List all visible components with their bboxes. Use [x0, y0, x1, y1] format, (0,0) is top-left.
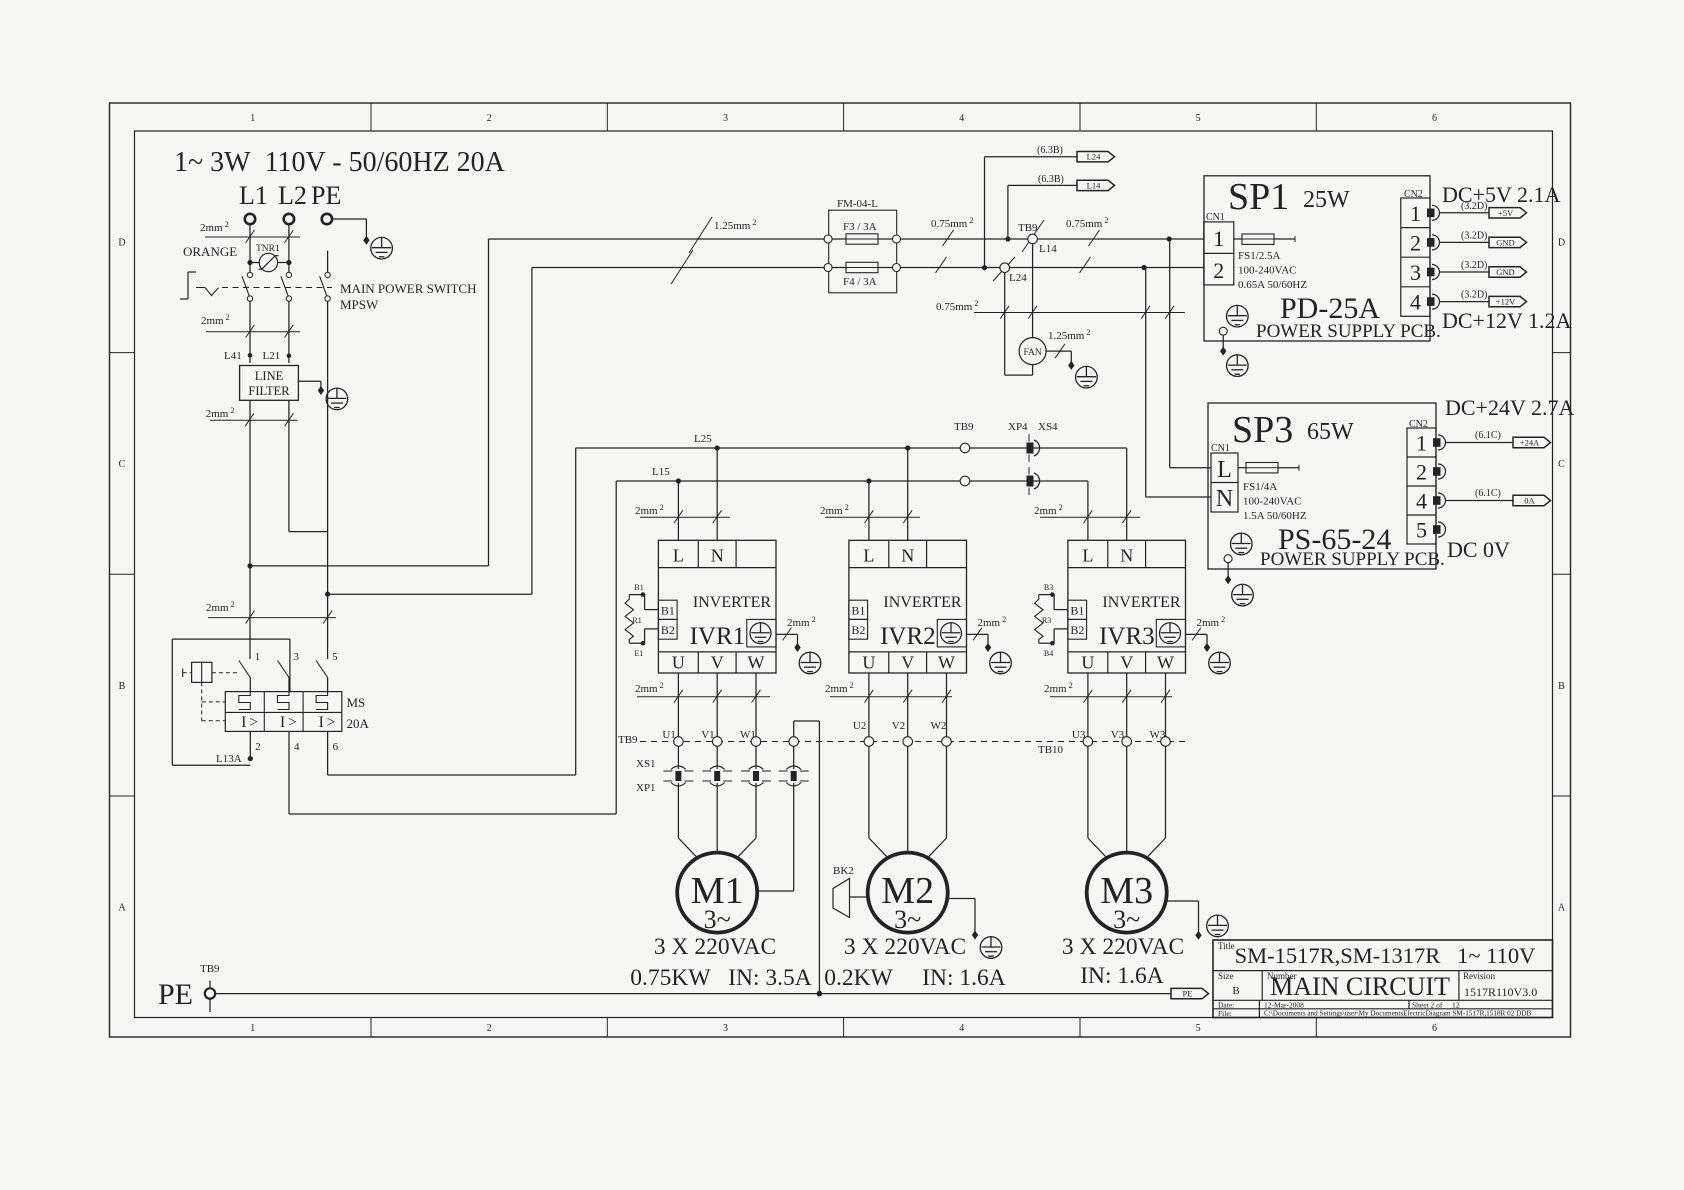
svg-text:3: 3 [723, 113, 728, 124]
ground (SP3 chassis) [1232, 584, 1254, 606]
terminal L2 [284, 214, 294, 224]
svg-text:CN1: CN1 [1211, 443, 1230, 454]
junction [1141, 265, 1146, 270]
wires to motor M2 [868, 746, 870, 838]
svg-text:+5V: +5V [1498, 208, 1514, 218]
svg-text:FILTER: FILTER [248, 384, 290, 398]
svg-text:INVERTER: INVERTER [883, 594, 961, 611]
pin CN2-4 (SP1) [1427, 294, 1440, 309]
svg-text:5: 5 [1416, 518, 1427, 543]
svg-text:A: A [1558, 903, 1566, 914]
ground (SP3 internal) [1231, 533, 1253, 555]
svg-text:INVERTER: INVERTER [693, 594, 771, 611]
svg-text:ORANGE: ORANGE [183, 244, 237, 259]
svg-text:L21: L21 [263, 350, 281, 362]
wire L2 drop [288, 224, 290, 272]
svg-text:PE: PE [158, 978, 193, 1011]
terminal B2 (IVR3) [1068, 619, 1087, 639]
svg-text:E1: E1 [634, 649, 643, 658]
varistor TNR1 [247, 260, 252, 265]
svg-text:Size: Size [1218, 971, 1234, 981]
svg-text:2: 2 [487, 1023, 492, 1034]
svg-text:2: 2 [1416, 460, 1427, 485]
fuse module FM-04-L [829, 210, 897, 293]
svg-text:W: W [938, 653, 955, 673]
svg-text:L: L [863, 546, 874, 566]
svg-text:>: > [288, 714, 297, 731]
terminal B2 (IVR1) [658, 619, 677, 639]
ground (IVR1 chassis) [799, 652, 821, 674]
svg-text:N: N [711, 546, 724, 566]
ground (IVR3 chassis) [1209, 652, 1231, 674]
svg-text:POWER SUPPLY PCB.: POWER SUPPLY PCB. [1260, 549, 1445, 570]
svg-text:(6.1C): (6.1C) [1475, 488, 1501, 499]
svg-text:(3.2D): (3.2D) [1461, 260, 1487, 271]
svg-text:1517R110V3.0: 1517R110V3.0 [1464, 985, 1537, 999]
connector CN2 (SP3) [1407, 428, 1436, 544]
svg-text:Title: Title [1218, 941, 1235, 951]
svg-text:3 X 220VAC: 3 X 220VAC [1062, 934, 1184, 960]
svg-text:L14: L14 [1039, 243, 1057, 255]
wire IVR3 earth [1186, 633, 1208, 635]
svg-text:0A: 0A [1524, 496, 1535, 506]
ground (PE input) [371, 237, 393, 259]
svg-text:L1: L1 [239, 181, 268, 210]
svg-text:F4 / 3A: F4 / 3A [843, 276, 877, 288]
svg-text:LINE: LINE [255, 369, 284, 383]
fuse FS1/2.5A [1234, 238, 1242, 240]
svg-text:L41: L41 [224, 350, 242, 362]
svg-text:B: B [1558, 681, 1565, 692]
title block [1213, 940, 1553, 1018]
svg-text:INVERTER: INVERTER [1102, 594, 1180, 611]
svg-text:1: 1 [255, 651, 260, 663]
wire IVR2 N feed [907, 448, 909, 540]
svg-text:2: 2 [487, 113, 492, 124]
wire SP3 N input [1145, 268, 1147, 498]
wire IVR1 earth [776, 633, 798, 635]
svg-text:B4: B4 [1044, 649, 1053, 658]
terminal B1 (IVR3) [1068, 600, 1087, 619]
svg-text:1: 1 [250, 113, 255, 124]
pin CN2-3 (SP1) [1427, 265, 1439, 280]
wire FAN earth [1046, 350, 1071, 352]
braking resistor R3 [1050, 592, 1055, 597]
svg-text:XP4: XP4 [1008, 421, 1028, 433]
svg-text:12-Mar-2008: 12-Mar-2008 [1264, 1000, 1304, 1009]
ground (M2) [980, 937, 1002, 959]
net flag L24 (6.3B) [985, 156, 1078, 158]
svg-text:0.75mm2: 0.75mm2 [931, 216, 974, 230]
svg-text:+24A: +24A [1520, 438, 1540, 448]
svg-text:GND: GND [1496, 237, 1514, 247]
svg-text:100-240VAC: 100-240VAC [1243, 496, 1301, 508]
svg-text:>: > [327, 714, 336, 731]
svg-text:(6.3B): (6.3B) [1038, 174, 1064, 185]
svg-text:TB9: TB9 [954, 421, 974, 433]
inverter IVR1 [658, 540, 776, 673]
wire IVR3 L drop [1087, 481, 1089, 540]
svg-text:3~: 3~ [894, 905, 921, 934]
svg-text:B: B [119, 681, 126, 692]
svg-text:W: W [748, 653, 765, 673]
junction [1167, 236, 1172, 241]
ground (SP1 internal) [1227, 305, 1249, 327]
wire PE bus [215, 993, 1171, 995]
svg-text:N: N [901, 546, 914, 566]
svg-text:W2: W2 [931, 720, 947, 732]
svg-text:V: V [1120, 653, 1133, 673]
svg-text:2: 2 [1213, 258, 1224, 283]
fan FAN [1019, 338, 1046, 365]
svg-text:POWER SUPPLY PCB.: POWER SUPPLY PCB. [1256, 321, 1441, 342]
connector CN2 (SP1) [1401, 198, 1430, 316]
wire L41 filter to MS [249, 400, 251, 659]
svg-text:DC+5V 2.1A: DC+5V 2.1A [1442, 182, 1560, 207]
terminal TB9/L24 [993, 257, 1015, 281]
wire IVR1 N feed [716, 448, 718, 540]
svg-text:3: 3 [723, 1023, 728, 1034]
svg-text:3: 3 [1410, 260, 1421, 285]
svg-text:L: L [673, 546, 684, 566]
svg-text:25W: 25W [1303, 187, 1350, 213]
svg-text:IVR2: IVR2 [880, 623, 936, 650]
connector CN1 (SP1) [1204, 222, 1234, 285]
svg-text:2: 2 [1410, 230, 1421, 255]
terminals TB9 (M2) [868, 673, 870, 737]
svg-text:3~: 3~ [1113, 905, 1140, 934]
svg-text:Revision: Revision [1463, 971, 1496, 981]
svg-text:2: 2 [255, 741, 260, 753]
wire SP1 earth [1219, 327, 1227, 335]
svg-text:0.75KW IN: 3.5A: 0.75KW IN: 3.5A [630, 965, 811, 991]
wire pole5 drop [327, 301, 329, 659]
svg-text:4: 4 [294, 741, 300, 753]
svg-text:V2: V2 [892, 720, 905, 732]
ground (SP1 chassis) [1227, 355, 1249, 377]
wire L15 bus [616, 480, 1088, 482]
svg-text:B1: B1 [851, 604, 865, 618]
svg-text:PE: PE [311, 181, 341, 210]
terminal TB9 (L15) [960, 476, 970, 486]
svg-text:4: 4 [1416, 489, 1427, 514]
ground (IVR3 internal) [1156, 619, 1185, 647]
ground (IVR1 internal) [747, 619, 776, 647]
svg-text:B2: B2 [661, 623, 675, 637]
svg-text:XS4: XS4 [1038, 421, 1058, 433]
ground (FAN) [1076, 366, 1098, 388]
svg-text:5: 5 [1196, 113, 1201, 124]
ground (IVR2 internal) [937, 619, 966, 647]
svg-text:65W: 65W [1307, 419, 1354, 445]
MS operator [192, 662, 212, 682]
svg-text:V: V [711, 653, 724, 673]
svg-text:U: U [1081, 653, 1094, 673]
svg-text:>: > [249, 714, 258, 731]
MS output 2 / L13A [249, 731, 251, 757]
wire IVR1 L feed [677, 481, 679, 540]
wires IVR1 U/V/W to TB9 [677, 673, 679, 737]
svg-text:B: B [1232, 985, 1239, 997]
svg-text:MS: MS [347, 695, 366, 710]
MS thermal element 3 [278, 692, 290, 710]
MS poles box [225, 692, 341, 732]
svg-text:C: C [119, 459, 126, 470]
wire SP3 earth [1224, 555, 1232, 563]
border frame outer [110, 103, 1571, 1037]
wires MPSW to line filter [249, 301, 251, 363]
svg-text:IN: 1.6A: IN: 1.6A [1080, 963, 1164, 989]
motor M3 [1087, 853, 1167, 933]
svg-text:TB9: TB9 [200, 963, 220, 975]
TB9/TB10 dashed terminal rail [640, 741, 1185, 743]
svg-text:(6.1C): (6.1C) [1475, 430, 1501, 441]
svg-text:L25: L25 [694, 433, 712, 445]
svg-text:TB10: TB10 [1038, 744, 1064, 756]
svg-text:D: D [1558, 237, 1565, 248]
svg-text:20A: 20A [347, 716, 370, 731]
svg-text:6: 6 [333, 741, 339, 753]
wire riser to fuse F4 [328, 593, 532, 595]
svg-text:XS1: XS1 [636, 758, 656, 770]
svg-text:3 X 220VAC: 3 X 220VAC [844, 934, 966, 960]
svg-text:N: N [1216, 486, 1233, 512]
svg-text:B1: B1 [661, 604, 675, 618]
svg-text:1: 1 [250, 1023, 255, 1034]
terminals TB10 (M3) [1087, 673, 1089, 737]
wire L14 to FAN [1032, 244, 1034, 338]
net flag +5V [1489, 208, 1527, 218]
svg-text:SP3: SP3 [1232, 409, 1293, 451]
svg-text:I: I [241, 714, 246, 731]
svg-text:IVR3: IVR3 [1099, 623, 1155, 650]
wires XP1 to motor M1 [677, 783, 679, 838]
svg-text:12: 12 [1452, 1000, 1460, 1009]
svg-text:XP1: XP1 [636, 782, 656, 794]
wire IVR2 L feed [868, 481, 870, 540]
svg-text:1: 1 [1416, 431, 1427, 456]
MS thermal element 1 [239, 692, 251, 710]
connector CN1 (SP3) [1211, 453, 1238, 512]
main power switch MPSW [247, 272, 252, 277]
svg-text:B1: B1 [634, 583, 643, 592]
svg-text:DC 0V: DC 0V [1447, 537, 1510, 562]
wire SP3 L input [1169, 239, 1171, 468]
MS output 4 riser to L15 [288, 731, 290, 814]
svg-text:IVR1: IVR1 [690, 623, 746, 650]
svg-text:PE: PE [1183, 989, 1193, 999]
svg-text:B2: B2 [1070, 623, 1084, 637]
terminal PE [322, 214, 332, 224]
MS output 6 riser to L25 [327, 731, 329, 775]
svg-text:U: U [672, 653, 685, 673]
svg-text:U2: U2 [853, 720, 866, 732]
inverter IVR3 [1068, 540, 1186, 673]
svg-text:SP1: SP1 [1228, 176, 1289, 218]
svg-text:(3.2D): (3.2D) [1461, 290, 1487, 301]
svg-text:I: I [280, 714, 285, 731]
terminal B1 (IVR1) [658, 600, 677, 619]
MPSW handle [188, 271, 196, 273]
wire PE to earth [332, 218, 366, 220]
motor M1 [677, 853, 757, 933]
svg-text:GND: GND [1496, 267, 1514, 277]
svg-text:DC+24V 2.7A: DC+24V 2.7A [1445, 395, 1574, 420]
svg-text:File:: File: [1218, 1009, 1232, 1018]
MS pole blade 5 [316, 661, 328, 678]
svg-text:L2: L2 [278, 181, 307, 210]
wire L25 bus [576, 447, 1127, 449]
terminal B1 (IVR2) [849, 600, 868, 619]
svg-text:MPSW: MPSW [340, 297, 379, 312]
motor M2 [868, 853, 948, 933]
svg-text:4: 4 [1410, 290, 1421, 315]
svg-text:3: 3 [294, 651, 300, 663]
svg-text:B2: B2 [851, 623, 865, 637]
terminal B2 (IVR2) [849, 619, 868, 639]
svg-text:3 X 220VAC: 3 X 220VAC [654, 934, 776, 960]
border frame inner [135, 131, 1553, 1018]
svg-text:(6.3B): (6.3B) [1037, 145, 1063, 156]
svg-text:3~: 3~ [704, 905, 731, 934]
svg-text:4: 4 [959, 1023, 964, 1034]
terminal L1 [245, 214, 255, 224]
pin CN2-2 (SP3) [1433, 464, 1446, 479]
svg-text:L14: L14 [1087, 180, 1101, 190]
svg-text:D: D [118, 237, 125, 248]
wire L21 filter jog [288, 400, 290, 531]
wire N bus [532, 267, 828, 269]
wire IVR3 N drop [1126, 448, 1128, 540]
svg-text:1: 1 [1410, 201, 1421, 226]
svg-text:MAIN POWER SWITCH: MAIN POWER SWITCH [340, 281, 477, 296]
wire M3 earth [1166, 900, 1198, 902]
svg-text:0.2KW IN: 1.6A: 0.2KW IN: 1.6A [824, 965, 1005, 991]
svg-text:DC+12V 1.2A: DC+12V 1.2A [1442, 308, 1571, 333]
svg-text:FS1/4A: FS1/4A [1243, 481, 1277, 493]
svg-text:TNR1: TNR1 [256, 244, 280, 254]
fuse FS1/4A [1238, 467, 1246, 469]
pin CN2-4 (SP3) [1433, 493, 1446, 508]
svg-text:0.75mm2: 0.75mm2 [936, 299, 979, 313]
wire riser to fuse F3 [250, 565, 489, 567]
ground (IVR2 chassis) [990, 652, 1012, 674]
svg-text:L15: L15 [652, 466, 670, 478]
svg-text:TB9: TB9 [618, 734, 638, 746]
svg-text:1.5A 50/60HZ: 1.5A 50/60HZ [1243, 510, 1307, 522]
svg-text:SM-1517R,SM-1317R 1~ 110V: SM-1517R,SM-1317R 1~ 110V [1235, 943, 1536, 968]
MS pole blade 3 [278, 661, 290, 678]
svg-text:C: C [1558, 459, 1565, 470]
power supply SP3 PS-65-24 [1208, 403, 1436, 569]
svg-text:I: I [319, 714, 324, 731]
svg-text:L: L [1082, 546, 1093, 566]
wire IVR2 earth [967, 633, 989, 635]
svg-text:(3.2D): (3.2D) [1461, 230, 1487, 241]
svg-text:L: L [1217, 457, 1232, 483]
svg-text:V: V [901, 653, 914, 673]
net flag GND [1489, 267, 1527, 277]
svg-text:L13A: L13A [216, 753, 242, 765]
line filter LF1 [240, 366, 299, 401]
svg-text:L24: L24 [1009, 272, 1027, 284]
net flag +12V [1489, 296, 1527, 306]
wire M1 PE loop [793, 721, 795, 737]
svg-text:1: 1 [1213, 226, 1224, 251]
svg-text:0.75mm2: 0.75mm2 [1066, 216, 1109, 230]
braking resistor R1 [641, 592, 646, 597]
wire L1 drop [249, 224, 251, 272]
svg-text:L24: L24 [1087, 152, 1101, 162]
pin CN2-5 (SP3) [1433, 522, 1446, 537]
svg-text:FAN: FAN [1023, 348, 1041, 358]
svg-text:100-240VAC: 100-240VAC [1238, 265, 1296, 277]
svg-text:FS1/2.5A: FS1/2.5A [1238, 250, 1281, 262]
net flag GND [1489, 237, 1527, 247]
svg-text:6: 6 [1432, 1023, 1437, 1034]
svg-text:+12V: +12V [1496, 297, 1516, 307]
svg-text:W: W [1157, 653, 1174, 673]
MS pole blade 1 [239, 661, 251, 678]
wires to motor M3 [1087, 746, 1089, 838]
inverter IVR2 [849, 540, 967, 673]
net flag L14 (6.3B) [1008, 184, 1077, 186]
fuse F4 / 3A [824, 264, 832, 272]
pin CN2-1 (SP1) [1427, 205, 1439, 220]
svg-text:4: 4 [959, 113, 964, 124]
power supply SP1 PD-25A [1204, 176, 1430, 341]
svg-text:R1: R1 [632, 616, 641, 625]
svg-text:N: N [1120, 546, 1133, 566]
svg-text:1.25mm2: 1.25mm2 [714, 218, 757, 232]
svg-text:MAIN CIRCUIT: MAIN CIRCUIT [1270, 972, 1450, 1001]
svg-text:5: 5 [1196, 1023, 1201, 1034]
wire L24 to FAN [1004, 273, 1006, 376]
ground (line filter) [326, 388, 348, 410]
svg-text:6: 6 [1432, 113, 1437, 124]
svg-text:FM-04-L: FM-04-L [837, 198, 878, 210]
wire M2 earth [948, 898, 976, 900]
motor switch MS enclosure [172, 638, 290, 640]
wire L bus [489, 238, 829, 240]
svg-text:U: U [862, 653, 875, 673]
net flag 0A [1513, 495, 1551, 505]
svg-text:5: 5 [332, 651, 338, 663]
terminals TB9 (M1) [674, 737, 684, 747]
svg-text:F3 / 3A: F3 / 3A [843, 221, 877, 233]
svg-text:B1: B1 [1070, 604, 1084, 618]
MS thermal element 5 [316, 692, 328, 710]
svg-text:B3: B3 [1044, 583, 1053, 592]
svg-text:0.65A 50/60HZ: 0.65A 50/60HZ [1238, 279, 1307, 291]
pin CN2-2 (SP1) [1427, 235, 1439, 250]
svg-text:1~ 3W 110V - 50/60HZ 20A: 1~ 3W 110V - 50/60HZ 20A [174, 147, 506, 178]
svg-text:Sheet 2 of: Sheet 2 of [1412, 1000, 1443, 1009]
svg-text:C:\Documents and Settings\user: C:\Documents and Settings\user\My Docume… [1264, 1010, 1532, 1018]
svg-text:A: A [118, 903, 126, 914]
svg-text:R3: R3 [1042, 616, 1051, 625]
net flag PE [1171, 988, 1209, 998]
pin CN2-1 (SP3) [1433, 435, 1446, 450]
wire filter earth [298, 380, 321, 382]
net flag +24A [1513, 437, 1551, 447]
svg-text:1.25mm2: 1.25mm2 [1048, 328, 1091, 342]
svg-text:BK2: BK2 [833, 865, 854, 877]
ground (M3) [1207, 915, 1229, 937]
